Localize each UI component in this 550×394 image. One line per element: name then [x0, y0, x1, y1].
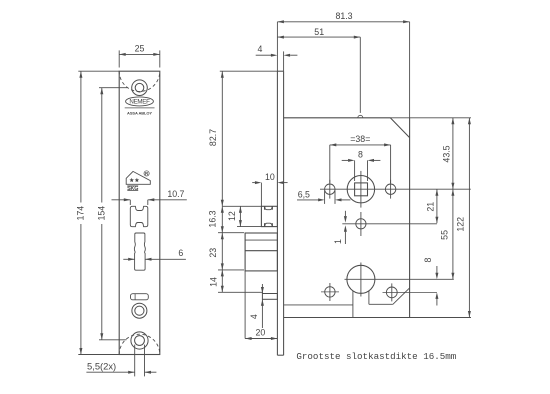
- dimension 10.7 (latch cutout width): [112, 189, 187, 205]
- dimension 10 (latch protrusion): [252, 172, 287, 206]
- deadbolt side view: [245, 233, 277, 271]
- dimension 4 (slot height): [249, 284, 264, 328]
- lock case front edge: [283, 117, 285, 119]
- dimension 21 (spindle to hole): [426, 189, 439, 223]
- faceplate side view (strip): [277, 71, 283, 355]
- SKG text: [127, 186, 138, 192]
- svg-text:NEMEF: NEMEF: [129, 99, 150, 106]
- left fixing hole (6.5): [325, 180, 335, 199]
- latch cutout in faceplate: [130, 206, 148, 226]
- svg-text:ASSA ABLOY: ASSA ABLOY: [127, 110, 152, 115]
- deadbolt cutout in faceplate: [134, 233, 145, 270]
- bottom slot side view: [262, 294, 277, 300]
- svg-text:16.3: 16.3: [207, 210, 217, 227]
- euro profile slot: [353, 288, 410, 318]
- svg-text:SKG: SKG: [127, 186, 138, 192]
- middle screw hole: [132, 303, 147, 318]
- dimension 23 (deadbolt height): [208, 233, 244, 270]
- dimension 154 (screw hole centres): [97, 88, 128, 340]
- svg-text:12: 12: [227, 211, 237, 221]
- dimension 122 (case height): [456, 118, 471, 318]
- svg-text:154: 154: [97, 206, 107, 221]
- svg-text:21: 21: [426, 202, 436, 212]
- latch bolt side view: [261, 206, 277, 226]
- spindle square hole: [355, 183, 368, 196]
- svg-text:174: 174: [76, 206, 86, 221]
- dimension 43.5 (top to spindle): [441, 118, 454, 189]
- dimension =38= (fixing hole centres): [330, 134, 391, 183]
- dimension 1 (offset): [333, 211, 347, 244]
- svg-text:122: 122: [456, 217, 466, 232]
- svg-text:5,5(2x): 5,5(2x): [87, 361, 116, 372]
- svg-text:43.5: 43.5: [441, 145, 451, 162]
- small slot in faceplate: [131, 294, 149, 300]
- ASSA ABLOY text: [127, 110, 152, 115]
- cylinder centrelines: [345, 263, 454, 297]
- tangent lines from bottom screw hole (5.5 dia): [135, 345, 145, 377]
- dimension 8 (spindle square): [342, 149, 381, 181]
- svg-text:82.7: 82.7: [208, 129, 218, 146]
- dimension 6,5 (hole diameter) leader: [297, 189, 350, 204]
- svg-text:10: 10: [265, 172, 275, 182]
- spindle centrelines: [320, 171, 471, 208]
- lock case top edge + extension: [284, 117, 471, 119]
- dimension 82.7 (top to latch): [208, 71, 224, 206]
- svg-text:81.3: 81.3: [335, 11, 352, 21]
- dimension 25 (plate width): [119, 43, 160, 67]
- cylinder hole circle: [347, 265, 375, 293]
- dimension 5,5(2x) with leader: [86, 361, 156, 374]
- dimension 20 (deadbolt throw): [245, 271, 277, 340]
- svg-text:6,5: 6,5: [298, 189, 310, 199]
- svg-text:10.7: 10.7: [167, 189, 184, 199]
- dashed arc at plate top (forend radius): [119, 71, 160, 91]
- dimension 55 (spindle to cylinder): [440, 189, 455, 279]
- line under NEMEF oval: [125, 107, 155, 109]
- lock case chamfer top-right: [390, 118, 409, 138]
- svg-text:8: 8: [358, 149, 363, 159]
- top screw hole: [132, 80, 148, 96]
- svg-text:14: 14: [209, 277, 219, 287]
- dimension 51 (backset): [277, 27, 362, 118]
- dimension 16.3 (latch height zone): [207, 206, 223, 232]
- hole below spindle: [342, 212, 437, 236]
- dimension 81.3 (case depth overall): [277, 11, 409, 71]
- dashed arc at plate bottom (forend radius): [119, 334, 160, 354]
- caption text: [296, 351, 456, 362]
- dimension 8 (cylinder to hole): [423, 257, 438, 305]
- svg-text:55: 55: [440, 230, 450, 240]
- svg-text:6: 6: [178, 248, 183, 258]
- svg-text:25: 25: [135, 43, 145, 53]
- bottom screw hole: [131, 332, 148, 349]
- bottom-left fixing hole: [321, 283, 339, 301]
- lock case bottom edge + extension: [284, 317, 471, 319]
- SKG quality mark logo: [126, 171, 150, 185]
- lock case back edge: [409, 22, 411, 318]
- svg-text:51: 51: [314, 27, 324, 37]
- faceplate front view outline: [119, 71, 160, 354]
- svg-text:4: 4: [249, 314, 259, 319]
- inner contour line left of slot: [284, 304, 353, 306]
- dimension 6 (deadbolt cutout width): [123, 248, 186, 261]
- dimension 12 (latch bolt height): [222, 206, 261, 226]
- right fixing hole: [385, 180, 395, 199]
- NEMEF logo oval: [126, 97, 154, 106]
- svg-text:20: 20: [256, 328, 266, 338]
- svg-text:8: 8: [423, 257, 433, 262]
- dimension 14 (deadbolt to slot): [209, 270, 264, 292]
- bottom-right fixing hole: [383, 283, 437, 301]
- connector line at plate top level: [220, 70, 278, 72]
- svg-text:=38=: =38=: [350, 134, 370, 144]
- svg-text:4: 4: [257, 44, 262, 54]
- svg-text:23: 23: [208, 248, 218, 258]
- spindle hub circle: [347, 176, 374, 203]
- svg-text:1: 1: [333, 239, 343, 244]
- dimension 174 (plate height): [76, 71, 120, 354]
- svg-text:Grootste slotkastdikte 16.5mm: Grootste slotkastdikte 16.5mm: [296, 351, 456, 362]
- dimension 4 (faceplate thickness): [256, 44, 298, 71]
